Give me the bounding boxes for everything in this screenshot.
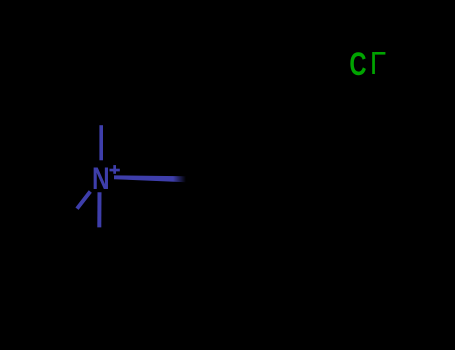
- charge plus: [110, 169, 120, 172]
- bond N-CH3 up: [99, 125, 103, 160]
- svg-text:N: N: [92, 160, 110, 196]
- svg-text:C: C: [349, 46, 366, 83]
- bond N-CH3 right: [114, 175, 186, 182]
- bond N-CH3 down-left: [77, 192, 90, 209]
- charge minus: [375, 52, 386, 55]
- bond N-CH3 down: [97, 192, 101, 227]
